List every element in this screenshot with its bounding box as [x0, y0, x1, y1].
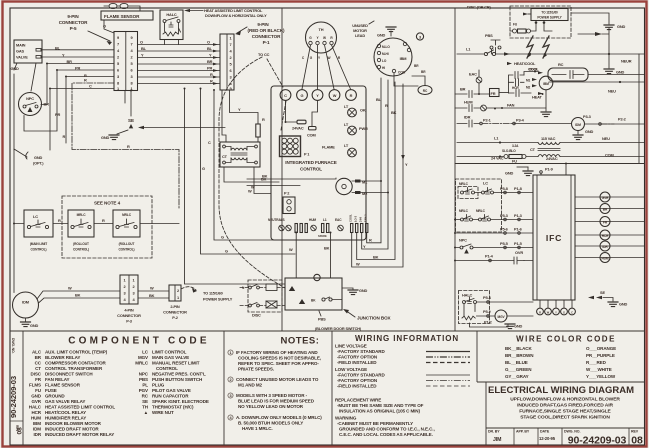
svg-text:P1-5: P1-5 [514, 241, 523, 246]
main gas valve MGV coil [495, 310, 533, 322]
svg-text:P3-4: P3-4 [516, 118, 525, 123]
wire G drop 2 [201, 89, 296, 255]
svg-text:COMPRESSOR CONTACTOR: COMPRESSOR CONTACTOR [45, 361, 107, 366]
svg-text:LOW VOLTAGE: LOW VOLTAGE [335, 367, 367, 372]
svg-text:GND: GND [617, 24, 626, 29]
svg-text:-FIELD INSTALLED: -FIELD INSTALLED [337, 360, 377, 365]
svg-text:4-PIN: 4-PIN [124, 308, 134, 313]
svg-text:BR: BR [460, 87, 466, 92]
connector P-5 (9 pin) [114, 32, 138, 92]
neutral terminals [279, 224, 344, 239]
svg-text:LC: LC [483, 181, 488, 186]
heat/cool labels [507, 61, 539, 72]
svg-text:GROUND: GROUND [45, 394, 65, 399]
svg-text:FU: FU [512, 159, 517, 164]
blower motor IBM [524, 68, 553, 112]
terminal C [280, 90, 291, 101]
label COM [560, 153, 645, 158]
svg-text:24VAC: 24VAC [546, 156, 558, 161]
svg-text:INSULATION AS ORIGINAL (105 C: INSULATION AS ORIGINAL (105 C MIN) [339, 409, 420, 414]
svg-text:IDM: IDM [33, 427, 41, 432]
main gas valve MGV [14, 40, 42, 63]
svg-text:(MAIN LIMIT: (MAIN LIMIT [30, 242, 47, 246]
svg-text:3.2A: 3.2A [512, 144, 519, 148]
svg-text:TO CC: TO CC [258, 52, 270, 57]
svg-text:FAN RELAY: FAN RELAY [45, 377, 70, 382]
wire O to P-5 [103, 20, 114, 33]
thermostat TH [306, 22, 337, 53]
svg-text:W: W [251, 185, 255, 190]
svg-text:MGV: MGV [498, 315, 506, 319]
svg-text:BLOWER RELAY: BLOWER RELAY [45, 355, 80, 360]
svg-text:P5-3: P5-3 [500, 213, 509, 218]
ground (MGV) [11, 63, 20, 150]
svg-text:MRLC: MRLC [459, 182, 469, 186]
svg-text:LO-3: LO-3 [354, 215, 358, 222]
svg-text:P-5: P-5 [70, 26, 77, 31]
svg-text:PR: PR [207, 66, 212, 71]
svg-text:CT: CT [35, 366, 41, 371]
svg-text:90-24209-03: 90-24209-03 [9, 376, 18, 418]
svg-text:2-HI: 2-HI [359, 217, 363, 222]
svg-text:DR. BY: DR. BY [488, 430, 500, 434]
svg-text:HCR: HCR [31, 410, 41, 415]
svg-text:IBM: IBM [543, 82, 549, 86]
svg-text:P1-8: P1-8 [514, 186, 523, 191]
svg-text:-CABINET MUST BE PERMANENTLY: -CABINET MUST BE PERMANENTLY [337, 421, 413, 426]
svg-text:MODELS WITH 3 SPEED MOTOR -: MODELS WITH 3 SPEED MOTOR - [236, 393, 308, 398]
connector P-2 (2 pin) [163, 285, 187, 320]
svg-text:CT: CT [530, 147, 536, 152]
svg-text:R: R [102, 218, 105, 223]
svg-text:FLAME: FLAME [322, 145, 335, 150]
svg-text:SE: SE [600, 290, 605, 295]
svg-text:HEAT ASSISTED LIMIT CONTROL: HEAT ASSISTED LIMIT CONTROL [45, 405, 115, 410]
breaker flash 2 [543, 36, 549, 58]
svg-text:IFC: IFC [546, 233, 562, 243]
motor terminal M1 M2 [336, 178, 388, 196]
svg-text:WIRE COLOR CODE: WIRE COLOR CODE [516, 335, 616, 344]
dashed TO CC lead [267, 59, 283, 87]
wire R vertical [362, 80, 388, 249]
svg-text:CONTROL TRANSFORMER: CONTROL TRANSFORMER [45, 366, 103, 371]
svg-text:P-3: P-3 [126, 319, 133, 324]
junction box [285, 278, 342, 310]
svg-text:BL: BL [207, 46, 213, 51]
svg-text:P5-4: P5-4 [483, 295, 492, 300]
svg-text:IDR: IDR [464, 115, 471, 120]
svg-text:CT: CT [222, 154, 228, 159]
svg-text:BK: BK [391, 110, 397, 115]
panel divider middle/right [454, 8, 456, 331]
limit control HALC group [459, 291, 534, 324]
push button PBS [485, 33, 501, 49]
wires P-3 to P-2 [138, 286, 169, 299]
svg-text:C: C [208, 140, 211, 145]
svg-text:-FACTORY OPTION: -FACTORY OPTION [337, 355, 377, 360]
ground (IDM right) [573, 129, 594, 140]
svg-text:HAVE 1 MRLC.: HAVE 1 MRLC. [242, 426, 273, 431]
svg-text:COM: COM [398, 71, 406, 75]
svg-text:WIRE NUT: WIRE NUT [152, 410, 174, 415]
fuse FU [510, 21, 552, 33]
24VAC terminal [281, 101, 318, 138]
svg-text:ALC: ALC [32, 350, 42, 355]
ground (junction box) [342, 288, 368, 295]
svg-text:(RED OR BLACK): (RED OR BLACK) [248, 28, 285, 33]
svg-text:HUM: HUM [31, 416, 41, 421]
svg-text:MRLC: MRLC [135, 361, 149, 366]
PBS circle [314, 274, 326, 321]
transformer CT [530, 143, 560, 157]
svg-text:GND: GND [31, 394, 42, 399]
svg-text:HUM: HUM [602, 257, 609, 261]
svg-text:IDM: IDM [22, 300, 29, 305]
svg-text:TH: TH [319, 27, 324, 32]
svg-text:B. 50,000 BTUH MODELS ONLY: B. 50,000 BTUH MODELS ONLY [238, 421, 303, 426]
wire R option (dash-dot) [72, 73, 179, 209]
svg-text:G: G [202, 166, 205, 171]
svg-text:COOL: COOL [529, 68, 538, 72]
svg-text:IF FACTORY WIRING OF HEATING A: IF FACTORY WIRING OF HEATING AND [236, 350, 318, 355]
label heat assisted limit control [184, 8, 267, 18]
svg-text:COMPONENT CODE: COMPONENT CODE [68, 336, 209, 347]
svg-text:COOL: COOL [349, 214, 353, 222]
arrow node [578, 28, 609, 54]
svg-text:CONNECTOR: CONNECTOR [163, 310, 187, 315]
wire BK from CT [224, 167, 279, 182]
ground (opt) [14, 149, 44, 166]
svg-text:SLO-BLO: SLO-BLO [502, 149, 516, 153]
svg-text:DATE: DATE [540, 430, 550, 434]
wire Y vertical [352, 84, 408, 267]
ground (motor) [377, 27, 396, 38]
panel divider left/middle [281, 8, 283, 331]
svg-text:NEU: NEU [602, 136, 610, 141]
svg-text:FUSE: FUSE [45, 388, 57, 393]
svg-text:BK: BK [149, 293, 155, 298]
svg-text:12-20-95: 12-20-95 [539, 436, 556, 441]
svg-text:P2-1: P2-1 [483, 118, 492, 123]
svg-text:C: C [89, 84, 92, 89]
svg-text:INDUCED DRAFT,GAS FIRED,FORCED: INDUCED DRAFT,GAS FIRED,FORCED AIR [517, 403, 613, 409]
svg-text:INDOOR BLOWER MOTOR: INDOOR BLOWER MOTOR [45, 421, 102, 426]
svg-text:7: 7 [130, 42, 132, 47]
lamp LT OK [344, 104, 366, 117]
svg-text:HEAT: HEAT [532, 95, 542, 100]
svg-text:R: R [539, 311, 541, 315]
svg-text:GND: GND [101, 135, 110, 140]
wire BK to junction [324, 233, 331, 279]
svg-text:HEAT/COOL RELAY: HEAT/COOL RELAY [45, 410, 86, 415]
thermostat leads [302, 45, 351, 89]
table band top rule [10, 330, 645, 332]
note 3 circle [416, 33, 423, 40]
svg-text:P5-2: P5-2 [483, 309, 492, 314]
wire R solid [66, 77, 114, 144]
label NEU [549, 75, 645, 94]
svg-text:P-1: P-1 [263, 40, 270, 45]
svg-text:R: R [385, 103, 388, 108]
wire to power supply (dashed) [181, 287, 233, 302]
terminal R [346, 90, 357, 101]
svg-text:R: R [369, 238, 372, 243]
terminal G [297, 90, 308, 101]
svg-text:9-PIN: 9-PIN [257, 22, 269, 27]
IFC pin W [545, 300, 552, 315]
svg-text:P5-8: P5-8 [500, 186, 509, 191]
MRLC MRLC row [455, 209, 533, 221]
svg-text:CONNECTOR: CONNECTOR [59, 20, 88, 25]
svg-text:M2: M2 [526, 85, 531, 89]
IFC pin R [537, 300, 544, 315]
svg-text:BK: BK [373, 255, 379, 260]
limit control LC [24, 210, 53, 252]
svg-text:SPARK IGNIT. ELECTRODE: SPARK IGNIT. ELECTRODE [152, 399, 209, 404]
svg-text:G: G [221, 235, 224, 240]
svg-text:GND: GND [377, 33, 386, 38]
wire P-1 pin drop [222, 90, 226, 142]
humidifier HUM [455, 100, 546, 112]
wire P2-1 to P3-4 [482, 118, 571, 125]
svg-text:PWR: PWR [359, 126, 368, 131]
flame sensor FLMS [101, 3, 153, 20]
svg-text:90-24209-03: 90-24209-03 [568, 435, 627, 447]
row P5-6 P1-6 [455, 227, 533, 235]
svg-text:O: O [207, 40, 210, 45]
svg-text:GND: GND [34, 155, 43, 160]
svg-text:(ROLLOUT: (ROLLOUT [119, 242, 135, 246]
svg-text:LC: LC [142, 350, 149, 355]
svg-text:R: R [210, 72, 213, 77]
svg-text:L1: L1 [323, 218, 327, 222]
svg-text:MAIN: MAIN [16, 43, 26, 48]
wiring/color divider [476, 331, 478, 382]
svg-text:MANUAL RESET LIMIT: MANUAL RESET LIMIT [152, 361, 200, 366]
svg-text:G___GREEN: G___GREEN [505, 367, 531, 372]
svg-text:FAN-1: FAN-1 [364, 214, 368, 222]
svg-text:FURNACE,SINGLE STAGE HEAT,SING: FURNACE,SINGLE STAGE HEAT,SINGLE [519, 409, 611, 415]
svg-text:CONTROL): CONTROL) [73, 248, 89, 252]
svg-text:1: 1 [229, 351, 231, 355]
svg-text:TO 115/1/60: TO 115/1/60 [203, 291, 223, 296]
svg-text:CONNECT UNUSED MOTOR LEADS TO: CONNECT UNUSED MOTOR LEADS TO [236, 377, 319, 382]
svg-text:P1-2: P1-2 [484, 320, 493, 325]
svg-text:BL: BL [141, 46, 147, 51]
svg-text:BR__BROWN: BR__BROWN [505, 353, 533, 358]
fan label [501, 103, 515, 110]
svg-text:DISC (OR CB): DISC (OR CB) [467, 5, 492, 10]
svg-text:GND: GND [616, 70, 625, 75]
svg-text:BR: BR [207, 59, 213, 64]
svg-text:HCR: HCR [602, 234, 609, 238]
svg-text:R: R [127, 144, 130, 149]
svg-text:P5-5: P5-5 [500, 241, 509, 246]
wire W from CT [248, 167, 271, 194]
wire BK board [247, 174, 336, 180]
svg-text:LINE VOLTAGE: LINE VOLTAGE [335, 344, 367, 349]
svg-text:9-PIN: 9-PIN [67, 14, 79, 19]
svg-text:DISC: DISC [31, 372, 42, 377]
title block [488, 430, 643, 447]
electrical wiring diagram title [488, 385, 634, 421]
wire MGV to NPC [31, 63, 36, 91]
notes/wiring divider [331, 331, 333, 445]
svg-text:(BLOWER DOOR SWITCH): (BLOWER DOOR SWITCH) [315, 326, 362, 331]
control transformer CT [220, 142, 260, 167]
svg-text:GAS: GAS [16, 49, 25, 54]
svg-text:CONTROL: CONTROL [300, 166, 322, 171]
svg-text:PRIATE SPEEDS.: PRIATE SPEEDS. [238, 367, 274, 372]
spark electrode SE [588, 290, 628, 307]
svg-text:DWG. NO.: DWG. NO. [564, 430, 580, 434]
svg-text:PR__PURPLE: PR__PURPLE [586, 353, 615, 358]
svg-text:PR: PR [55, 112, 60, 117]
svg-text:IDR: IDR [602, 245, 608, 249]
svg-text:GY__GRAY: GY__GRAY [505, 374, 529, 379]
connector P-3 (4 pin) [117, 275, 141, 324]
svg-text:IBM: IBM [33, 421, 41, 426]
svg-text:CONNECTOR: CONNECTOR [117, 313, 141, 318]
svg-text:W___WHITE: W___WHITE [586, 367, 612, 372]
dwg-no strip divider [22, 331, 24, 445]
run capacitor RC [548, 62, 588, 81]
limit control HALC [160, 10, 183, 45]
svg-text:PBS: PBS [485, 33, 493, 38]
svg-text:▲: ▲ [144, 410, 148, 415]
svg-text:P3-3: P3-3 [583, 114, 592, 119]
svg-text:POWER SUPPLY: POWER SUPPLY [537, 16, 562, 20]
svg-text:115 VAC: 115 VAC [541, 136, 556, 141]
svg-text:DISC: DISC [252, 313, 261, 318]
svg-text:DWG. NO.: DWG. NO. [11, 338, 15, 354]
svg-text:PLUG: PLUG [152, 383, 165, 388]
svg-text:RC: RC [558, 62, 564, 67]
svg-text:FR: FR [35, 377, 42, 382]
svg-text:IDR: IDR [33, 432, 41, 437]
draft motor IDM [572, 114, 645, 131]
svg-text:2-PIN: 2-PIN [170, 304, 180, 309]
wire W board [247, 185, 300, 190]
svg-text:MRLC: MRLC [476, 209, 486, 213]
label integrated furnace control [285, 160, 336, 171]
svg-text:FLMS: FLMS [29, 383, 41, 388]
svg-text:NOTES:: NOTES: [281, 336, 320, 347]
svg-text:BK__BLACK: BK__BLACK [505, 346, 532, 351]
svg-text:FLAME SENSOR: FLAME SENSOR [104, 14, 140, 19]
svg-text:PL: PL [142, 383, 148, 388]
svg-text:M1: M1 [526, 79, 531, 83]
wire Y to resistor [230, 90, 259, 124]
disconnect DISC box [510, 6, 571, 38]
svg-text:P5-6: P5-6 [500, 227, 509, 232]
svg-text:GVR: GVR [31, 399, 41, 404]
ground (mid right) [604, 54, 625, 75]
svg-text:EAC: EAC [335, 218, 342, 222]
svg-text:FU: FU [35, 388, 41, 393]
wire BK vertical [357, 82, 397, 260]
svg-text:REV: REV [631, 430, 639, 434]
svg-text:RUN CAPACITOR: RUN CAPACITOR [152, 394, 189, 399]
wire BR [41, 59, 114, 105]
pressure control NPC [19, 93, 42, 116]
svg-text:O: O [140, 40, 143, 45]
svg-text:C: C [284, 93, 287, 98]
svg-text:NO YELLOW LEAD ON MOTOR: NO YELLOW LEAD ON MOTOR [238, 404, 304, 409]
svg-text:C: C [571, 311, 573, 315]
relay output HUM [575, 253, 645, 263]
svg-text:Y___YELLOW: Y___YELLOW [586, 374, 616, 379]
spark electrode SE [125, 91, 225, 130]
svg-text:PUSH BUTTON SWITCH: PUSH BUTTON SWITCH [152, 377, 202, 382]
speed tap terminals [349, 214, 368, 233]
svg-text:G: G [225, 249, 228, 254]
svg-text:NEUR: NEUR [621, 59, 632, 64]
svg-text:M-LO: M-LO [382, 45, 390, 49]
wiring information section [335, 334, 470, 437]
svg-text:R: R [210, 79, 213, 84]
wire P1-9 entry [540, 164, 566, 176]
terminal W [329, 90, 340, 101]
svg-text:P-2: P-2 [172, 315, 179, 320]
svg-text:CONNECTOR: CONNECTOR [252, 34, 281, 39]
svg-text:WARNING: WARNING [335, 416, 357, 421]
dashed harness curve [219, 57, 285, 288]
svg-text:RC: RC [142, 394, 149, 399]
fan relay FR [490, 89, 509, 97]
title block cell dividers [514, 428, 629, 445]
wire G drop 1 [185, 89, 286, 285]
svg-text:2: 2 [229, 378, 231, 382]
title block top rule [486, 427, 645, 429]
svg-text:W: W [150, 286, 154, 291]
integrated furnace control board [271, 86, 366, 240]
relay output IDR [575, 241, 645, 251]
wire C drop [208, 90, 290, 240]
svg-text:HALC: HALC [462, 293, 473, 298]
diagram box left edge [485, 382, 487, 445]
svg-text:HEAT/COOL: HEAT/COOL [514, 61, 536, 66]
wire limit chain [14, 218, 179, 224]
ground (IBM) [541, 112, 551, 117]
svg-text:MGV: MGV [138, 355, 148, 360]
MRLC LC dashed group [456, 179, 534, 232]
svg-text:BK: BK [324, 246, 330, 251]
svg-text:SPARE: SPARE [318, 234, 327, 238]
svg-text:G: G [563, 311, 565, 315]
svg-text:OK: OK [360, 108, 366, 113]
lamp LT FLAME [322, 143, 356, 157]
run capacitor RC [394, 64, 432, 95]
svg-text:R: R [84, 73, 87, 78]
contact BR [455, 87, 490, 98]
svg-text:GND: GND [505, 171, 514, 176]
resistor R [256, 117, 265, 142]
svg-text:R: R [350, 93, 353, 98]
svg-text:PGV: PGV [139, 388, 148, 393]
svg-text:INTEGRATED FURNACE: INTEGRATED FURNACE [285, 160, 336, 165]
svg-text:HI: HI [382, 66, 385, 70]
svg-text:BLUE LEAD IS FOR MEDIUM SPEED: BLUE LEAD IS FOR MEDIUM SPEED [238, 399, 315, 404]
wire W to junction [289, 233, 296, 279]
component code table [29, 336, 210, 438]
svg-text:FLAME SENSOR: FLAME SENSOR [45, 383, 81, 388]
svg-text:-MUST BE THE SAME SIZE AND TYP: -MUST BE THE SAME SIZE AND TYPE OF [337, 403, 424, 408]
svg-text:O: O [103, 24, 106, 29]
motor taps M1 M2 [526, 78, 537, 89]
svg-text:SEE NOTE 4: SEE NOTE 4 [94, 201, 121, 206]
svg-text:GND: GND [359, 288, 368, 293]
